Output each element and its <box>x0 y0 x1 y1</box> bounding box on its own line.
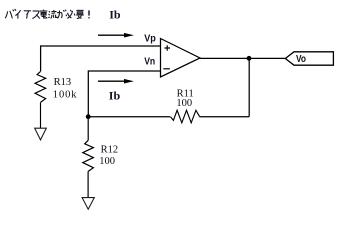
op-amp U1 <box>161 39 201 78</box>
wire feedback vertical <box>248 58 250 116</box>
resistor R11 <box>170 110 199 123</box>
電 <box>40 10 47 18</box>
junction node output <box>247 56 252 61</box>
resistor R12 <box>83 140 94 197</box>
port Vo <box>285 52 333 65</box>
resistor R13 <box>35 71 46 128</box>
ア <box>24 11 31 19</box>
！ <box>88 10 90 18</box>
junction node Vn/R12 <box>86 114 91 119</box>
svg-text:Vp: Vp <box>144 33 156 45</box>
イ <box>15 10 20 18</box>
ground (under R12) <box>82 198 94 210</box>
要 <box>76 10 84 18</box>
が <box>57 10 66 19</box>
svg-text:R13: R13 <box>54 77 72 88</box>
svg-text:Ib: Ib <box>109 7 121 21</box>
wire feedback bottom right <box>200 116 250 118</box>
arrow Ib current into Vp <box>98 33 134 38</box>
svg-text:R12: R12 <box>101 144 119 155</box>
wire Vn input (corner down to junction) <box>88 71 160 117</box>
wire Vp input (corner at left) <box>41 46 161 71</box>
バ <box>5 9 16 18</box>
必 <box>66 10 75 19</box>
流 <box>48 10 57 19</box>
wire R12 lead <box>87 117 89 141</box>
svg-text:100k: 100k <box>53 90 78 101</box>
wire op-amp output <box>200 57 285 59</box>
svg-text:100: 100 <box>99 156 115 167</box>
note text "バイアス電流が必要！" (drawn glyphs) <box>5 9 89 19</box>
arrow Ib current into Vn <box>98 79 134 84</box>
svg-text:Vo: Vo <box>296 53 306 65</box>
ス <box>32 11 39 19</box>
ground (under R13) <box>35 128 47 140</box>
svg-text:Vn: Vn <box>144 56 155 68</box>
svg-text:Ib: Ib <box>109 89 121 103</box>
svg-text:100: 100 <box>176 98 192 109</box>
wire feedback to junction <box>88 116 170 118</box>
